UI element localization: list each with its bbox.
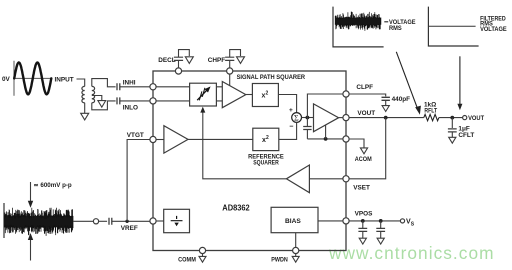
VGA block: [190, 83, 217, 106]
ground (DECL): [185, 57, 193, 64]
wire A2 to reference squarer: [188, 138, 253, 140]
pin DECL: [175, 68, 181, 74]
junction CFLT node: [450, 116, 454, 120]
pin PWDN: [293, 247, 299, 253]
scope noise trace: [335, 12, 381, 31]
wire VREF internal: [156, 220, 164, 222]
arrow up to noise: [30, 238, 32, 261]
junction VREF node: [125, 220, 128, 223]
transformer T1 primary: [82, 86, 85, 102]
svg-text:INLO: INLO: [123, 105, 138, 112]
input sine wave: [14, 63, 51, 95]
reference squarer block: [253, 128, 279, 150]
noise axis: [3, 203, 5, 238]
pin ACOM: [343, 136, 349, 142]
dash (voltage rms callout): [384, 21, 388, 23]
amplifier A1 (signal path): [222, 82, 246, 108]
wire VTGT internal: [156, 139, 164, 141]
BIAS block: [271, 207, 318, 232]
transformer T1 secondary: [92, 86, 95, 102]
supply decoupling capacitor 2: [380, 221, 382, 228]
wire ACOM internal: [307, 138, 343, 140]
divider block: [164, 209, 190, 232]
svg-text:www.cntronics.com: www.cntronics.com: [328, 243, 494, 263]
summer: [292, 113, 302, 123]
pin VPOS: [343, 218, 349, 224]
ground (CHPF): [237, 57, 245, 64]
svg-text:SIGNAL PATH SQUARER: SIGNAL PATH SQUARER: [237, 74, 306, 81]
wire secondary bottom to C2: [92, 101, 116, 110]
capacitor 440pF: [382, 97, 390, 100]
svg-text:Σ: Σ: [294, 113, 299, 122]
wire A1 to squarer: [246, 94, 253, 96]
CHPF decoupling capacitor: [230, 50, 241, 68]
svg-text:COMM: COMM: [178, 256, 196, 263]
pointer scope to VOUT terminal: [459, 56, 461, 105]
ground (input primary): [81, 113, 89, 120]
wire CLPF internal: [307, 94, 343, 118]
signal path squarer block: [252, 84, 278, 107]
scope axes (voltage rms): [333, 7, 384, 47]
pin INHI: [150, 84, 156, 90]
svg-text:440pF: 440pF: [392, 96, 411, 103]
junction supply cap 2: [379, 219, 383, 223]
wire CHPF internal: [229, 74, 231, 86]
svg-text:VPOS: VPOS: [355, 211, 373, 218]
junction feedback node: [324, 137, 328, 141]
wire C1 to INHI pin: [120, 86, 150, 88]
svg-text:PWDN: PWDN: [271, 256, 288, 263]
scope axes (filtered): [428, 7, 478, 46]
wires VGA to amplifier: [216, 87, 222, 101]
wire CLPF to 440pF: [349, 94, 386, 96]
svg-text:INHI: INHI: [123, 80, 136, 87]
svg-text:BIAS: BIAS: [285, 218, 301, 225]
svg-text:DECL: DECL: [158, 57, 175, 64]
pin INLO: [150, 98, 156, 104]
svg-text:VREF: VREF: [121, 225, 138, 232]
wire primary to ground: [84, 103, 86, 114]
pin CHPF: [227, 68, 233, 74]
pin VTGT: [150, 136, 156, 142]
wire VPOS to Vs: [349, 220, 400, 222]
svg-text:RFLT: RFLT: [424, 108, 437, 115]
wire INLO internal: [156, 100, 190, 102]
pin VSET: [343, 176, 349, 182]
wire C2 to INLO pin: [120, 100, 150, 102]
wire squarer to summer: [278, 95, 296, 113]
svg-text:INPUT: INPUT: [55, 77, 74, 84]
ground (PWDN): [295, 254, 297, 257]
VGA attenuator symbol: [197, 90, 206, 100]
wire RFLT to VOUT terminal: [439, 117, 463, 119]
pin VOUT: [343, 115, 349, 121]
svg-text:SQUARER: SQUARER: [253, 159, 279, 166]
resistor RFLT: [424, 114, 439, 120]
ground (supply cap 1): [359, 238, 366, 244]
terminal Vs: [400, 219, 404, 223]
wire BIAS to VPOS: [318, 220, 343, 222]
amplifier A2 (VTGT): [164, 126, 188, 153]
VGA gain control arrow: [202, 111, 204, 139]
filtered trace: [428, 25, 475, 27]
terminal VOUT: [463, 116, 467, 120]
wire ref squarer to summer: [279, 122, 297, 139]
pointer scope to VOUT node: [396, 52, 418, 110]
internal filter capacitor: [306, 118, 308, 139]
svg-text:+: +: [289, 107, 293, 114]
svg-text:RMS: RMS: [389, 25, 402, 32]
wire feedback VOUT to VSET: [349, 118, 386, 179]
svg-text:AD8362: AD8362: [222, 204, 250, 213]
ground (supply cap 2): [377, 238, 384, 244]
svg-text:−: −: [289, 124, 293, 131]
supply decoupling capacitor 1: [362, 221, 364, 228]
wire BIAS to PWDN: [295, 233, 297, 248]
wire VOUT to RFLT: [349, 117, 424, 119]
wire ACOM external: [349, 139, 364, 148]
svg-text:CLPF: CLPF: [356, 84, 373, 91]
wire A3 output to VOUT: [339, 117, 343, 119]
wire VREF node to VTGT: [127, 140, 150, 222]
wire buffer to VGA control: [203, 139, 287, 178]
svg-text:2: 2: [266, 91, 269, 97]
wire secondary top to C1: [92, 79, 116, 87]
AD8362 chip outline: [153, 71, 346, 251]
wire terminal to C3: [99, 220, 108, 222]
wire INPUT to transformer: [77, 79, 85, 86]
wire feedback to buffer: [325, 125, 327, 139]
ground (ACOM): [360, 148, 367, 154]
capacitor C2 (INLO coupling): [117, 97, 120, 104]
svg-text:CHPF: CHPF: [208, 57, 225, 64]
svg-text:CFLT: CFLT: [458, 132, 474, 139]
svg-text:≃ 600mV p-p: ≃ 600mV p-p: [34, 182, 72, 189]
pin CLPF: [343, 91, 349, 97]
svg-text:VOLTAGE: VOLTAGE: [480, 26, 507, 33]
ground (440pF): [382, 106, 389, 112]
wire C3 to VREF pin: [112, 220, 150, 222]
ground (COMM): [202, 254, 204, 257]
noise waveform: [5, 208, 74, 236]
svg-text:2: 2: [266, 135, 269, 141]
capacitor C3 (VREF coupling): [109, 218, 112, 225]
wire summer output: [302, 117, 314, 119]
wire INHI internal: [156, 86, 190, 88]
pin COMM: [199, 247, 205, 253]
pin VREF: [150, 218, 156, 224]
ground (CFLT): [449, 137, 456, 143]
DECL decoupling capacitor: [179, 50, 190, 68]
capacitor CFLT: [451, 118, 453, 128]
junction summer node: [306, 116, 310, 120]
wire noise to terminal: [73, 220, 93, 222]
svg-text:VOUT: VOUT: [357, 110, 375, 117]
svg-text:0V: 0V: [2, 76, 11, 83]
arrow down to noise: [30, 182, 32, 203]
buffer A3: [314, 104, 339, 132]
transformer secondary center tap: [92, 96, 102, 101]
svg-text:VTGT: VTGT: [127, 132, 144, 139]
svg-text:ACOM: ACOM: [355, 156, 372, 163]
terminal (noise source): [93, 219, 98, 224]
wire VSET to buffer: [309, 178, 343, 180]
VSET buffer A4: [286, 165, 309, 193]
capacitor C1 (INHI coupling): [117, 83, 120, 90]
divider symbol: [171, 216, 183, 221]
svg-text:VSET: VSET: [353, 184, 370, 191]
ground (center tap): [98, 101, 106, 108]
junction VOUT feedback: [384, 116, 388, 120]
junction supply cap 1: [361, 219, 365, 223]
svg-text:VOUT: VOUT: [468, 115, 484, 122]
input waveform axes: [14, 61, 52, 96]
